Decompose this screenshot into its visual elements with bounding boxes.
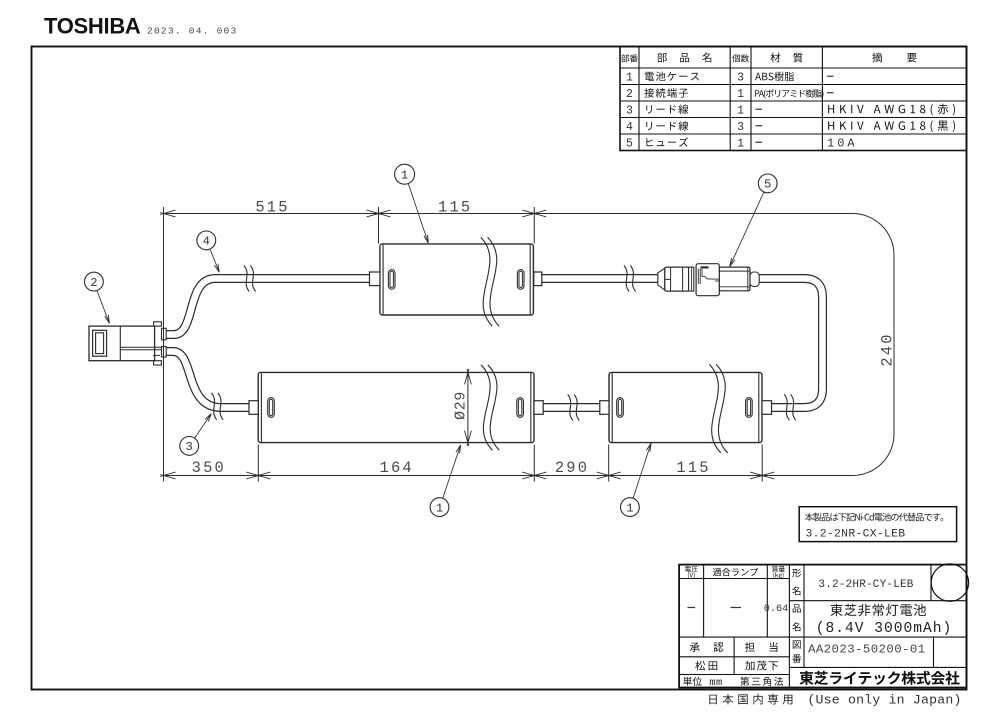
ferrule top case right <box>534 272 542 286</box>
extension lines <box>164 207 763 482</box>
date stamp 2023.04.003 <box>147 26 237 37</box>
svg-text:115: 115 <box>676 459 710 477</box>
note text line 1 <box>805 513 944 521</box>
use only in japan note <box>709 693 961 708</box>
dimension text 115 (top) <box>438 198 472 216</box>
svg-text:1: 1 <box>436 501 443 515</box>
wire break mark (lead 4) <box>244 266 256 292</box>
balloon 4 (lead wire 4) <box>197 231 219 272</box>
svg-text:1: 1 <box>737 104 744 117</box>
product spec <box>816 621 953 637</box>
balloon 2 (connection terminal) <box>85 272 110 323</box>
svg-text:240: 240 <box>878 332 896 366</box>
product name <box>830 604 926 616</box>
parts table row 4: リード線 <box>626 120 955 133</box>
svg-text:5: 5 <box>626 137 633 150</box>
note text line 2 <box>806 529 906 541</box>
svg-text:115: 115 <box>438 198 472 216</box>
lead wire 3 (connector to bottom-left case) <box>163 352 253 408</box>
svg-text:350: 350 <box>192 459 226 477</box>
svg-text:4: 4 <box>626 121 633 134</box>
balloon 1 (bottom-left case) <box>430 445 461 517</box>
svg-text:1: 1 <box>401 169 408 183</box>
dimension text 290 <box>555 459 589 477</box>
wire top case to fuse <box>538 274 660 283</box>
title block <box>679 565 966 688</box>
dimension arrowheads top row <box>160 210 546 217</box>
ferrule bottom-right case right <box>762 401 772 415</box>
connection terminal (item 2) <box>89 322 166 365</box>
model name 3.2-2HR-CY-LEB <box>818 579 913 591</box>
svg-text:3: 3 <box>737 121 744 134</box>
battery case 1 (top, 115) <box>380 244 534 315</box>
battery case 3 (bottom-right, 115) <box>609 372 762 442</box>
dimension text 164 <box>380 459 414 477</box>
fuse holder (item 5) <box>658 264 759 296</box>
ferrule bottom-right case left <box>600 401 609 415</box>
svg-text:Ø29: Ø29 <box>453 391 469 420</box>
wire fuse to bottom-right case (loop) <box>756 279 823 408</box>
drawing number AA2023-50200-01 <box>808 643 926 657</box>
dimension text 515 <box>255 198 289 216</box>
wire break mark (loop bottom) <box>784 394 796 420</box>
break lines in battery case 2 <box>481 365 499 450</box>
title block left values <box>688 604 789 615</box>
parts table row 3: リード線 <box>626 104 955 118</box>
svg-text:1: 1 <box>626 501 633 515</box>
svg-text:4: 4 <box>203 235 210 249</box>
TOSHIBA logo <box>44 14 141 39</box>
dimension line (top row + 240 bend + bottom row) <box>164 214 895 476</box>
wire break mark (top-right) <box>624 266 636 292</box>
svg-text:(8.4V 3000mAh): (8.4V 3000mAh) <box>816 621 953 637</box>
svg-text:3: 3 <box>737 71 744 84</box>
svg-text:2023. 04. 003: 2023. 04. 003 <box>147 26 237 37</box>
company name <box>800 671 960 685</box>
parts table row 5: ヒューズ <box>626 136 858 150</box>
svg-text:3: 3 <box>626 104 633 117</box>
approval stamp circle <box>931 564 968 601</box>
svg-text:1: 1 <box>626 71 633 84</box>
dimension text Ø29 (rotated) <box>453 391 469 420</box>
dimension text 240 (rotated) <box>878 332 896 366</box>
balloon 1 (top case) <box>395 164 429 243</box>
parts table <box>620 47 967 151</box>
wire bottom-left case to bottom-right case <box>540 403 603 412</box>
svg-text:mm: mm <box>709 678 722 689</box>
approval cells <box>683 642 783 689</box>
wire break mark (bottom-center) <box>568 395 580 421</box>
svg-text:1: 1 <box>737 88 744 101</box>
svg-text:AA2023-50200-01: AA2023-50200-01 <box>808 643 926 657</box>
svg-text:3.2-2HR-CY-LEB: 3.2-2HR-CY-LEB <box>818 579 913 591</box>
svg-text:2: 2 <box>626 88 633 101</box>
parts table header row <box>621 53 916 63</box>
dimension text 115 (bottom) <box>676 459 710 477</box>
svg-text:0.64: 0.64 <box>764 604 788 615</box>
ferrule bottom-left case right <box>534 401 543 415</box>
substitute-product note box <box>799 507 956 542</box>
form/name/number labels <box>792 569 801 663</box>
ferrule bottom-left case left <box>249 401 258 415</box>
break lines in battery case 1 <box>481 237 499 326</box>
parts table row 1: 電池ケース <box>626 71 833 84</box>
dimension arrowheads bottom row <box>160 472 774 479</box>
ferrule top case left <box>370 272 380 286</box>
balloon 5 (fuse) <box>730 174 777 266</box>
battery case 2 (bottom-left, 164) <box>258 372 534 442</box>
svg-text:2: 2 <box>90 276 97 290</box>
svg-text:5: 5 <box>764 178 771 192</box>
diameter dimension line Ø29 <box>465 369 472 446</box>
svg-text:3.2-2NR-CX-LEB: 3.2-2NR-CX-LEB <box>806 529 906 541</box>
title block left headers <box>685 566 785 579</box>
svg-text:(Use only in Japan): (Use only in Japan) <box>807 693 961 708</box>
balloon 3 (lead wire 3) <box>180 414 212 456</box>
svg-text:1: 1 <box>737 137 744 150</box>
dimension text 350 <box>192 459 226 477</box>
svg-text:10A: 10A <box>827 136 858 150</box>
wire break mark (lead 3) <box>212 393 224 420</box>
svg-text:515: 515 <box>255 198 289 216</box>
break lines in battery case 3 <box>709 364 727 453</box>
svg-text:3: 3 <box>186 440 193 454</box>
svg-text:290: 290 <box>555 459 589 477</box>
balloon 1 (bottom-right case) <box>621 443 652 516</box>
parts table row 2: 接続端子 <box>626 88 833 101</box>
svg-text:TOSHIBA: TOSHIBA <box>44 14 141 39</box>
svg-text:164: 164 <box>380 459 414 477</box>
lead wire 4 (connector to top case) <box>163 279 374 335</box>
